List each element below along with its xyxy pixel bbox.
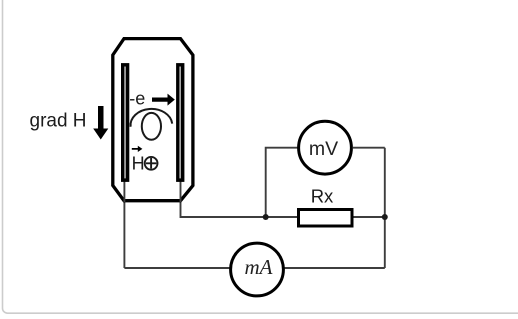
svg-text:H: H [132, 154, 145, 174]
svg-text:Rx: Rx [311, 186, 334, 207]
svg-text:mV: mV [309, 138, 338, 160]
svg-text:-e: -e [129, 88, 145, 108]
svg-text:mA: mA [245, 255, 273, 279]
svg-text:grad H: grad H [30, 110, 87, 131]
